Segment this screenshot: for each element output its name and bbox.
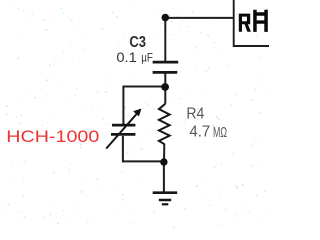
resistor R4 zigzag — [159, 104, 170, 145]
wire: loop top (middle node to left branch) — [123, 86, 166, 88]
wire: top node to IC box pin — [165, 17, 233, 19]
svg-text:4.7: 4.7 — [189, 123, 210, 140]
node: junction bottom (above ground) — [160, 158, 167, 165]
IC box U1 (partial, top right) — [234, 0, 269, 46]
wire: C3 bottom plate to middle node — [164, 73, 166, 87]
wire: resistor bottom to bottom node — [163, 144, 165, 162]
svg-text:HCH-1000: HCH-1000 — [6, 127, 99, 146]
sensor HCH-1000 variable capacitor plates — [111, 125, 135, 134]
wire: middle node to resistor top — [164, 87, 166, 104]
node: junction top (to RA pin) — [162, 14, 170, 22]
ground symbol — [153, 193, 178, 205]
capacitor C3 plates — [153, 62, 179, 72]
wire: left branch lower — [122, 136, 124, 162]
svg-text:MΩ: MΩ — [213, 124, 227, 141]
svg-text:µF: µF — [141, 51, 153, 65]
svg-text:0.1: 0.1 — [116, 49, 137, 65]
sensor arrow shaft — [106, 114, 136, 149]
wire: loop bottom — [122, 160, 164, 162]
wire: top node to C3 top plate — [164, 18, 166, 62]
wire: bottom node to ground — [163, 162, 165, 192]
node: junction below C3 — [161, 83, 169, 91]
svg-text:R4: R4 — [186, 106, 204, 123]
wire: left branch upper — [122, 86, 124, 125]
pin label RA (blocky letters) — [239, 10, 268, 32]
sensor arrow head — [133, 109, 141, 117]
